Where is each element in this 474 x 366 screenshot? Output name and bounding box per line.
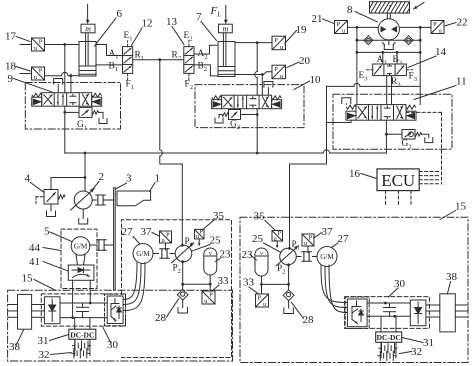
svg-text:23: 23: [220, 249, 232, 261]
generator motor 27 right: [317, 247, 337, 267]
wire bottom-chamber to valvebox9: [70, 74, 73, 92]
wire 41 to bus a: [71, 280, 74, 319]
svg-text:38: 38: [9, 341, 21, 353]
label 35 right: [254, 211, 275, 230]
svg-text:R1: R1: [135, 51, 145, 63]
junction dot node sensors left: [63, 43, 66, 46]
svg-text:P: P: [258, 295, 262, 302]
gm5 to box41 neck: [76, 255, 85, 266]
port label B1: [109, 62, 119, 74]
label 44: [29, 242, 61, 254]
label 6: [95, 8, 123, 46]
grid block 38 right: [440, 294, 456, 332]
label 38 left: [9, 330, 24, 353]
svg-text:28: 28: [155, 312, 167, 324]
cylinder 6 barrel: [79, 42, 96, 77]
wires 38 right out: [455, 305, 468, 317]
cylinder 7 piston: [218, 67, 235, 75]
tank under motor centre: [383, 40, 396, 49]
battery 32 left: [71, 341, 90, 358]
pressure sensor 33 right: [256, 284, 269, 308]
wires 38 to rectifier left: [32, 305, 45, 318]
frame 15 right dash-dot box: [240, 217, 468, 362]
svg-text:22: 22: [457, 17, 468, 29]
svg-text:B3: B3: [393, 55, 403, 67]
valve box 9 dashed border: [25, 83, 120, 130]
inverter assembly dashed box 30 right: [345, 297, 430, 329]
svg-text:P2: P2: [173, 263, 181, 276]
force FL label: [210, 5, 222, 19]
wire valve V2 to manifold: [256, 109, 259, 153]
label 14: [408, 46, 447, 68]
svg-text:R2: R2: [172, 51, 182, 63]
cylinder 6 rod: [86, 33, 89, 66]
wire dcdc to battery right: [381, 342, 396, 358]
port label E2: [184, 31, 193, 43]
tank T above valve box9: [54, 79, 63, 93]
label 19: [285, 24, 307, 44]
svg-text:m: m: [85, 24, 91, 33]
wire pump25 left down: [182, 262, 184, 285]
svg-text:41: 41: [29, 256, 40, 268]
wire top chamber down to box10: [255, 43, 258, 96]
svg-text:9: 9: [8, 73, 14, 85]
port label F2: [185, 80, 194, 92]
svg-text:15: 15: [455, 201, 467, 213]
label 25 right: [252, 233, 281, 253]
label 22: [445, 17, 468, 29]
label 4: [25, 173, 44, 193]
wire dcdc to battery left: [75, 339, 90, 355]
svg-text:37: 37: [322, 226, 334, 238]
wire 37 stub right: [307, 246, 309, 253]
port label E1: [124, 31, 133, 43]
wire bottom chamber down to box10: [261, 75, 263, 96]
pressure sensor 17: [20, 38, 45, 52]
label 27 left: [122, 226, 140, 244]
svg-text:28: 28: [303, 314, 315, 326]
wire lower crossline: [356, 51, 422, 54]
wire R3 down double: [387, 76, 392, 105]
wire A2 to cylinder7: [194, 45, 218, 54]
wires rectifier to 38 right: [426, 305, 440, 317]
label 28 left: [155, 299, 179, 324]
rectifier diode box right: [410, 300, 426, 326]
displacement sensor 37 left: [160, 231, 172, 244]
label 11: [414, 76, 467, 100]
port label F3: [409, 72, 418, 84]
port F3 dashed: [406, 69, 412, 71]
hydraulic motor 8: [378, 13, 399, 40]
cylinder C1 load arrow: [86, 5, 90, 25]
coupling pump2-engine: [92, 195, 113, 205]
relief valve G3: [386, 130, 432, 143]
engine shaft wall: [114, 188, 116, 291]
R line down with hop: [160, 60, 183, 246]
wire R1-R2 return line: [133, 59, 184, 61]
svg-text:P2: P2: [277, 263, 285, 276]
dc link capacitor right: [384, 303, 396, 316]
label 2: [90, 171, 105, 193]
relief valve 4: [44, 176, 86, 216]
label 23 right: [242, 249, 257, 261]
wire branch into valve V3: [327, 120, 352, 122]
wire accumulator branch right: [260, 283, 290, 286]
svg-text:G3: G3: [402, 139, 413, 151]
valve box 11 dashed border: [333, 94, 452, 149]
svg-text:10: 10: [310, 74, 322, 86]
label 33 left: [213, 275, 230, 291]
svg-text:P: P: [166, 231, 170, 238]
dc bus bottom left: [60, 317, 107, 319]
relief valve G1: [65, 107, 107, 123]
svg-text:6: 6: [117, 8, 123, 20]
phase wires gm27 to inverter left: [123, 263, 145, 311]
valve 12: [123, 47, 133, 74]
pressure sensor 19: [272, 36, 286, 51]
pressure sensor 22: [431, 21, 444, 35]
label 7: [196, 11, 217, 41]
label 10: [294, 74, 321, 90]
svg-text:14: 14: [435, 46, 447, 58]
svg-text:30: 30: [394, 278, 406, 290]
wire dcdc up left: [75, 318, 90, 330]
wire sensor21 to motor: [348, 26, 379, 29]
wire valve V3 drain down: [385, 120, 388, 153]
junction dot bottom chamber: [261, 73, 264, 76]
port label E3: [359, 71, 369, 83]
svg-text:35: 35: [213, 210, 225, 222]
pump group dashed box left: [122, 220, 232, 358]
port label R2: [172, 51, 182, 63]
svg-text:E1: E1: [124, 31, 133, 43]
svg-text:v: v: [260, 251, 263, 257]
wire vertical into valvebox9: [64, 45, 66, 93]
junction dot P2 right: [287, 263, 290, 266]
svg-text:P: P: [199, 229, 203, 236]
label 37 right: [314, 226, 334, 238]
dc-dc converter 31 right: [376, 332, 402, 342]
svg-text:P: P: [274, 66, 278, 73]
relief valve 4 pilot: [36, 197, 44, 204]
label 15 left: [22, 273, 57, 291]
label 41: [29, 256, 68, 271]
accumulator 23 right: [255, 248, 268, 284]
wire A3 up: [381, 51, 384, 64]
svg-text:A2: A2: [198, 49, 208, 61]
solenoid 35 right: [272, 230, 283, 248]
dc link capacitor left: [77, 303, 89, 318]
svg-text:16: 16: [349, 168, 361, 180]
svg-text:27: 27: [338, 233, 350, 245]
wire cylinder6 port B1: [96, 64, 123, 66]
label 23 left: [216, 249, 232, 262]
svg-text:11: 11: [456, 76, 467, 88]
port label A1: [109, 49, 119, 61]
label 12: [132, 18, 153, 46]
port E2 dashed: [188, 41, 190, 47]
svg-text:G/M: G/M: [74, 243, 88, 251]
port F2 dashed: [188, 73, 190, 79]
label 1: [150, 173, 161, 192]
svg-text:P: P: [274, 37, 278, 44]
frame 15 left dash-dot box: [8, 290, 233, 361]
flywheel load J hatched: [362, 1, 418, 14]
wires into 38 left: [8, 305, 18, 318]
svg-text:F3: F3: [409, 72, 418, 84]
junction dot P1 right: [288, 247, 291, 250]
svg-text:P: P: [39, 68, 43, 75]
dc bus top right: [367, 302, 410, 304]
igbt inverter box right: [345, 297, 369, 329]
wire 37 stub: [165, 243, 167, 250]
battery 32 right: [378, 344, 397, 361]
check valve 28 left: [177, 284, 188, 313]
grid block 38 left: [18, 294, 32, 329]
proportional valve V1 in box9: [32, 93, 102, 107]
svg-text:DC-DC: DC-DC: [377, 333, 401, 342]
label 32 left: [39, 349, 72, 361]
label 25 left: [192, 235, 221, 252]
label 18: [5, 61, 30, 73]
svg-text:A1: A1: [109, 49, 119, 61]
label 30 left: [103, 328, 119, 352]
pressure sensor 21: [335, 21, 348, 35]
port label P2 right: [277, 263, 285, 276]
svg-text:5: 5: [44, 226, 50, 238]
cylinder 7 rod: [223, 33, 226, 67]
pressure sensor 33 left: [202, 284, 215, 305]
svg-text:DC-DC: DC-DC: [70, 330, 94, 339]
dc-dc converter 31 left: [69, 329, 96, 339]
tank T in valve box11: [342, 98, 351, 105]
label 8: [347, 4, 378, 22]
label 38 right: [446, 271, 458, 294]
svg-text:FL: FL: [210, 5, 222, 19]
svg-text:A3: A3: [377, 55, 388, 67]
svg-text:15: 15: [22, 273, 34, 285]
wire pump2 to manifold: [84, 153, 86, 178]
coupling gm5-shaft: [90, 240, 114, 251]
wire motor left branch down: [356, 27, 358, 104]
wire accumulator branch left: [181, 283, 211, 286]
proportional valve V3 in box11: [346, 105, 416, 121]
power module 41: [68, 265, 94, 280]
wire crossline with check valves: [356, 39, 422, 42]
ECU box: [377, 169, 419, 191]
junction dot top chamber: [256, 41, 259, 44]
wire motor right branch down: [419, 27, 421, 104]
port label P1 right: [292, 239, 300, 252]
pressure sensor 18: [20, 67, 45, 81]
port label F1: [126, 80, 135, 92]
dc bus bottom right: [367, 315, 410, 317]
label 32 right: [400, 346, 423, 358]
port label A2: [198, 49, 208, 61]
wire sensor18 to cylinder6 bottom: [45, 72, 80, 75]
cylinder 7 force arrow: [224, 6, 228, 25]
check valve 28 right: [283, 284, 294, 313]
wire cylinder7 bottom chamber: [235, 72, 272, 75]
port label G3: [402, 139, 413, 151]
label 17: [5, 31, 30, 43]
wire 41 to bus b: [89, 280, 92, 304]
port E3 dashed: [367, 69, 373, 71]
port label R3: [391, 77, 401, 89]
main pressure manifold: [65, 150, 387, 155]
junction dot P2 left: [181, 260, 184, 263]
label 5: [44, 226, 72, 242]
igbt inverter box left: [105, 294, 126, 326]
inverter assembly dashed box 30 left: [41, 294, 125, 326]
rectifier diode box left: [44, 297, 60, 324]
svg-text:25: 25: [210, 235, 222, 247]
generator motor 5: [71, 237, 90, 256]
svg-text:P: P: [309, 234, 313, 241]
port label B2: [198, 62, 208, 74]
rotation arrow at flywheel: [414, 3, 425, 10]
pump 2: [71, 178, 95, 211]
svg-text:B1: B1: [109, 62, 119, 74]
relief valve G2: [215, 110, 257, 124]
label 3: [116, 173, 133, 190]
junction dots dc bus right: [384, 302, 396, 318]
mass m box cylinder7: [219, 24, 233, 33]
valve 13: [184, 47, 194, 74]
pump 25 right: [276, 246, 298, 266]
svg-text:35: 35: [254, 211, 266, 223]
cylinder 7 barrel: [218, 42, 235, 77]
coupling gm27-pump right: [296, 252, 317, 262]
ECU dashed outputs right: [419, 172, 440, 184]
engine 1: [117, 191, 151, 206]
check valve left of motor: [364, 36, 373, 45]
wire cylinder7 top chamber to sensor19: [235, 42, 272, 44]
junction dot P1 left: [181, 244, 184, 247]
wire supply drop to pump right: [290, 86, 327, 248]
svg-text:F2: F2: [185, 80, 194, 92]
pump 2 tank: [79, 209, 88, 224]
svg-text:F1: F1: [126, 80, 135, 92]
cylinder 6 piston: [79, 66, 96, 74]
label 20: [287, 55, 311, 68]
wire cylinder6 port A1: [96, 45, 123, 56]
valve 14: [373, 64, 407, 76]
pressure sensor 20: [272, 65, 286, 80]
svg-text:P1: P1: [185, 236, 193, 249]
port E1 dashed: [127, 41, 129, 47]
svg-text:21: 21: [312, 13, 323, 25]
svg-text:v: v: [209, 251, 212, 257]
label 27 right: [332, 233, 350, 248]
svg-text:44: 44: [29, 242, 41, 254]
junction dot R line: [158, 58, 161, 61]
svg-text:32: 32: [39, 349, 50, 361]
wire dcdc up right: [381, 316, 396, 332]
box 44 dashed border: [61, 229, 97, 288]
label 33 right: [243, 277, 258, 294]
wire pump25 right down: [288, 265, 290, 285]
svg-text:4: 4: [25, 173, 31, 185]
pump 25 left: [172, 243, 194, 263]
port label B3: [393, 55, 403, 67]
svg-text:30: 30: [107, 339, 119, 351]
svg-text:27: 27: [122, 226, 134, 238]
svg-text:E3: E3: [359, 71, 369, 83]
tank T above valve box10: [264, 82, 273, 96]
label 31 left: [38, 335, 69, 348]
svg-text:25: 25: [252, 233, 264, 245]
svg-text:17: 17: [5, 31, 17, 43]
svg-text:G/M: G/M: [320, 253, 334, 261]
check valve right of motor: [404, 36, 413, 45]
label 13: [166, 16, 184, 45]
label 15 right: [440, 201, 467, 220]
displacement sensor 37 right: [302, 234, 314, 247]
svg-text:18: 18: [5, 61, 17, 73]
svg-text:12: 12: [142, 18, 153, 30]
svg-text:J: J: [387, 4, 391, 13]
accumulator 23 left: [204, 248, 217, 284]
port label G1: [77, 120, 87, 132]
label 9: [8, 73, 53, 92]
label 30 right: [389, 278, 406, 297]
port label P2 left: [173, 263, 181, 276]
port label P1 left: [185, 236, 193, 249]
wire B3 up: [396, 51, 399, 64]
wire B2 to cylinder7: [194, 65, 218, 76]
svg-text:32: 32: [411, 346, 422, 358]
label 16: [349, 168, 377, 180]
svg-text:P: P: [209, 292, 213, 299]
svg-text:31: 31: [423, 337, 434, 349]
label 31 right: [402, 337, 434, 349]
svg-text:G2: G2: [230, 120, 240, 132]
mass m box cylinder6: [81, 24, 95, 33]
svg-text:31: 31: [38, 335, 49, 347]
svg-text:ECU: ECU: [381, 171, 415, 190]
svg-text:G/M: G/M: [136, 250, 150, 258]
svg-text:P: P: [337, 21, 341, 28]
coupling gm27-pump left: [153, 249, 175, 259]
generator motor 27 left: [133, 244, 153, 264]
svg-text:B2: B2: [198, 62, 208, 74]
svg-text:20: 20: [299, 55, 311, 67]
svg-text:m: m: [223, 24, 229, 33]
svg-text:P: P: [433, 21, 437, 28]
port F1 dashed: [127, 73, 129, 79]
valve box 10 dashed border: [195, 85, 304, 128]
proportional valve V2 in box10: [212, 95, 282, 109]
svg-text:G1: G1: [77, 120, 87, 132]
wire motor to sensor22: [399, 26, 431, 29]
wire sensor17 to cylinder6: [45, 44, 80, 46]
svg-text:37: 37: [141, 226, 153, 238]
label 37 left: [141, 226, 160, 238]
dashed pilot line box11 right: [406, 112, 442, 184]
port label R1: [135, 51, 145, 63]
wire cross link: [327, 83, 421, 86]
dc bus top left: [60, 302, 107, 304]
svg-text:19: 19: [296, 24, 308, 36]
label 28 right: [292, 303, 315, 327]
label 35 left: [204, 210, 225, 229]
phase wires gm27 to inverter right: [321, 265, 347, 313]
svg-text:P: P: [39, 39, 43, 46]
port label G2: [230, 120, 240, 132]
ECU dashed outputs bottom: [386, 191, 411, 206]
svg-text:P: P: [278, 230, 282, 237]
